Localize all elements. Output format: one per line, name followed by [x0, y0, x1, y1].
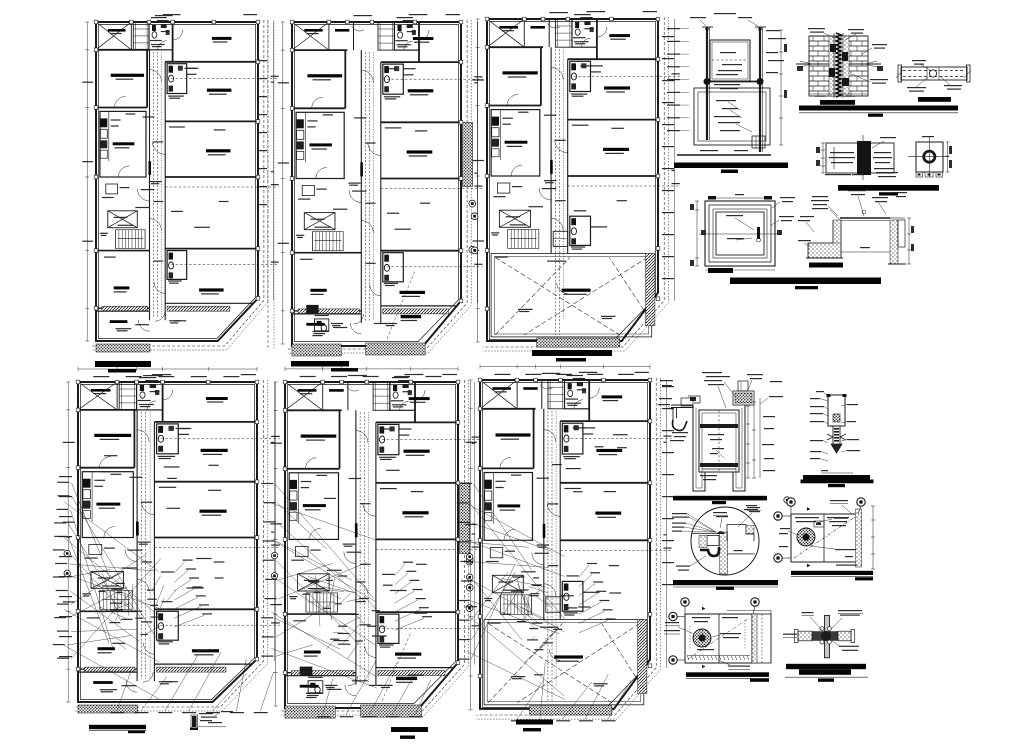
lower corner detail inner dashes	[689, 626, 691, 650]
plan F lift	[492, 575, 523, 593]
brick mortar speckle band	[829, 36, 849, 96]
plan A lift	[108, 211, 138, 228]
plan F top-right bedroom door	[589, 388, 599, 398]
wall pipe inner text rows left	[830, 152, 854, 153]
pipe cross horizontal hatched left	[798, 631, 812, 641]
oh tank support frame inner	[696, 408, 742, 488]
plan B bottom texts	[313, 331, 329, 332]
plan E mid wc	[378, 424, 399, 454]
plan B top-left balcony	[292, 22, 329, 50]
plan A plumbing dash lines upper	[171, 78, 279, 80]
pipe cross subtitle	[818, 678, 834, 681]
right of plan C label ticks	[662, 36, 674, 37]
plan D dashed property line	[74, 380, 264, 707]
plan D plumbing dash lower	[161, 624, 280, 626]
plan B corridor door arcs	[361, 70, 373, 82]
plan D interior extra texts	[166, 508, 180, 509]
pipe cross left label	[783, 634, 797, 635]
plan C right mid bedroom label	[604, 86, 630, 89]
oh tank dark band lower	[700, 463, 738, 467]
plan A corridor duct lines	[152, 52, 154, 318]
foundation right step	[898, 220, 905, 247]
oh tank left texts	[659, 398, 672, 399]
pipe cross horizontal bar dark mid	[812, 631, 838, 641]
plan D interior annotation texts	[130, 477, 143, 478]
pipe cross title bar lower	[799, 669, 851, 675]
plan C dimension line left	[477, 19, 479, 342]
plate cross axis vertical	[928, 136, 930, 177]
plan B interior annotation texts	[354, 117, 366, 118]
lower corner detail centre text	[697, 649, 714, 650]
plan B right edge hatch strip	[463, 122, 473, 186]
plan E stairs	[305, 593, 307, 612]
plan E plumbing dash mid	[376, 549, 480, 551]
plan E right margin dim line	[474, 382, 476, 665]
lower corner detail subtitle	[750, 678, 769, 681]
lower corner detail bottom label	[728, 666, 750, 667]
plan D plumbing dash mid	[154, 547, 279, 549]
upper corner detail bottom-right labels	[835, 549, 856, 550]
pipe joint dash rows	[903, 70, 965, 72]
oh tank trap labels	[672, 432, 688, 433]
plan C title bar	[532, 350, 612, 356]
funnel subtitle	[828, 484, 845, 487]
plan D drop pipe base	[190, 728, 198, 731]
oh tank subtitle	[712, 501, 726, 504]
plan B plumbing dash lines upper	[387, 78, 483, 80]
plan E left bedroom	[285, 409, 342, 411]
plan C top wc	[572, 19, 597, 47]
oh tank far right text	[769, 396, 783, 397]
plan D mid wc annotations	[158, 456, 175, 457]
plan D kitchen door arc	[104, 527, 115, 538]
plan D mid wc 2	[157, 611, 179, 640]
plan A right mid bedroom wall	[165, 120, 258, 122]
plan E top annotation texts	[348, 375, 367, 376]
plan B lift text	[310, 219, 324, 220]
plan D bottom-right bedroom wall	[154, 537, 257, 539]
plan E interior annotation texts	[349, 478, 362, 479]
plan E mid wc 2	[378, 614, 399, 643]
plan F wall tick columns	[478, 378, 482, 382]
plan C top-right bedroom door	[597, 27, 607, 37]
trap floor line left	[692, 532, 719, 534]
underground tank wall rings	[709, 205, 771, 262]
plan B title bar	[291, 361, 349, 367]
riser room inner labels	[716, 100, 736, 101]
plan F interior annotation texts	[537, 478, 549, 479]
plan E plumbing dash lines upper	[382, 439, 480, 441]
plan B big chamfer room label	[401, 315, 422, 318]
plan B right mid bedroom wall	[381, 121, 461, 123]
lower corner detail right-of-blob labels	[720, 633, 741, 634]
riser texts above	[690, 17, 706, 18]
plan E right mid bedroom label	[404, 450, 430, 453]
plan B top wc annotation cluster	[397, 17, 413, 18]
plan E bottom room label	[300, 685, 319, 688]
funnel neck wings	[827, 434, 833, 437]
plan F top shaft	[548, 380, 565, 409]
plan C corridor centre text	[555, 140, 565, 141]
plan A plumbing dash mid	[165, 186, 278, 188]
plan C top wc annotation cluster	[574, 14, 591, 15]
plan E right edge hatch strip	[460, 483, 470, 554]
plan D title rule	[89, 729, 146, 731]
pipe cross end caps	[794, 630, 798, 643]
foundation footing outline	[808, 220, 841, 258]
plan E lower wc fixtures	[308, 681, 323, 693]
plan D room3 label	[192, 649, 219, 652]
oh tank left small box	[681, 398, 693, 406]
plan C plumbing dash lines upper	[574, 75, 680, 77]
plan B dimension line left	[282, 22, 284, 344]
foundation far right labels	[893, 192, 907, 193]
plan A top annotation texts	[155, 15, 173, 16]
funnel inner dark square	[833, 414, 840, 422]
underground tank centre pipe mark	[757, 227, 760, 239]
plan D stair arrow	[102, 598, 130, 600]
plan D kitchen counter	[91, 472, 93, 522]
plan C plumbing dash mid	[568, 185, 680, 187]
plan D corridor centre text	[141, 502, 152, 503]
upper corner detail frame	[791, 514, 858, 562]
upper corner detail diagonal	[794, 517, 855, 558]
oh tank right dim lines	[747, 406, 749, 478]
plan F mid wc annotations	[563, 456, 580, 457]
plan F left bedroom	[480, 408, 536, 410]
plan B bottom door arcs	[350, 323, 361, 334]
foundation slab thin extension	[890, 217, 905, 219]
plan F left bedroom door arc	[500, 457, 511, 468]
oh tank top pipe box	[733, 391, 754, 405]
plan F top band divider	[541, 380, 543, 409]
plan E lower-left room	[285, 613, 356, 615]
plan B lift	[304, 213, 335, 230]
plan C wall tick columns	[485, 17, 489, 21]
plan B bottom-right bedroom label	[407, 150, 433, 153]
plan F kitchen	[484, 473, 532, 541]
oh tank dark band upper	[700, 424, 738, 428]
oh tank support frame	[693, 405, 745, 491]
plan C right margin dim line	[674, 19, 676, 301]
plan D kitchen	[82, 472, 133, 538]
plan D bottom texts	[100, 689, 117, 690]
plan C top-right bedroom	[596, 19, 598, 59]
plan C terrace texts	[518, 309, 533, 310]
plan D bottom leader fan	[117, 671, 131, 712]
plan F kitchen fixtures	[485, 480, 492, 489]
plan E room3 label	[395, 653, 421, 656]
plan A left bedroom door arc	[115, 97, 126, 108]
trap detail circle	[691, 507, 759, 575]
plate feet boxes	[916, 172, 923, 177]
plan C section markers	[471, 213, 478, 220]
square plate rect	[916, 142, 943, 172]
plan D plumbing dash lines upper	[161, 438, 280, 440]
plan C left bedroom	[487, 46, 543, 48]
plan B top-right bedroom door	[419, 30, 429, 40]
plan C lift	[499, 210, 530, 227]
plan A bottom edge dark hatch	[96, 344, 150, 352]
foundation long title bar	[730, 278, 881, 285]
wall pipe centre axis line	[862, 135, 864, 180]
lower corner detail diagonal	[688, 618, 749, 659]
plan D drop pipe leader	[198, 726, 226, 728]
oh tank trap curve	[673, 420, 688, 431]
foundation top label cluster mid	[848, 190, 866, 191]
plan F terrace label	[554, 655, 583, 658]
plan E outer wall	[285, 382, 458, 708]
plan A corridor walls	[149, 50, 151, 320]
plan C terrace	[491, 253, 652, 337]
plan C top annotation texts	[549, 12, 568, 13]
plan E corridor walls	[355, 410, 357, 685]
wall pipe below-right text block	[874, 168, 894, 169]
plan D subtitle	[128, 731, 145, 733]
foundation long subtitle	[795, 286, 818, 289]
plan A plumbing dash lower	[171, 264, 279, 266]
plan A title bar	[95, 361, 151, 367]
long subtitle under brick row	[868, 114, 883, 117]
plan F top wc	[565, 380, 590, 409]
plan E stair area dense cluster	[314, 592, 321, 593]
plan A mid wc	[167, 64, 187, 94]
plan E dashed property line	[281, 380, 465, 711]
upper corner detail title bar	[791, 571, 873, 575]
plan D bottom-right bedroom label	[200, 510, 227, 513]
plan B top band divider	[353, 22, 355, 50]
riser room rect	[694, 88, 770, 145]
plan F terrace shaft box	[546, 597, 560, 612]
plan A right margin dim line	[273, 22, 275, 300]
plan D mid wc	[157, 424, 179, 454]
plan D top shaft	[119, 382, 136, 410]
plan B bottom room label	[306, 323, 324, 326]
plan F top-right bedroom	[588, 380, 590, 421]
trap step block right	[727, 525, 754, 542]
riser left drop	[693, 120, 695, 145]
funnel top rect	[828, 395, 845, 426]
plan D lower-left room	[78, 610, 137, 612]
plan C top band divider	[548, 19, 550, 47]
plan D top wc annotation cluster	[139, 377, 156, 378]
plan F extra wc leader cluster	[579, 565, 589, 577]
plate top tick text	[922, 136, 934, 137]
plan B left margin texts	[278, 82, 289, 83]
plan C left bedroom door arc	[507, 95, 518, 106]
plan F corridor door arcs	[544, 430, 556, 442]
trap leader stack top-left	[672, 513, 687, 514]
upper corner detail top label	[830, 500, 848, 501]
oh tank bottom label	[700, 475, 717, 476]
plan E left margin texts	[270, 443, 282, 444]
plan D corridor black bar	[136, 522, 139, 536]
plan C hall door arc	[539, 188, 551, 200]
riser joint bar	[707, 81, 760, 83]
plan C mid wc	[570, 61, 591, 91]
lower corner detail left labels	[665, 622, 679, 623]
plan E bottom texts	[306, 693, 323, 694]
lower corner detail title bar	[686, 672, 769, 677]
pipe cross centre blob	[822, 632, 831, 641]
lower corner detail bottom hatch row	[687, 656, 689, 661]
plan E bottom door arcs	[345, 685, 356, 696]
plan C terrace right parapet hatch	[646, 253, 655, 325]
plan A top-right bedroom	[172, 22, 174, 62]
funnel AA text	[821, 470, 828, 471]
plan A kitchen	[100, 111, 146, 177]
plan C corridor walls	[550, 47, 552, 253]
plan E balcony hatch strips	[291, 671, 354, 676]
plan E kitchen	[289, 473, 338, 540]
plan B subtitle	[331, 368, 358, 372]
plan B bottom-right bedroom wall	[381, 178, 461, 180]
lower corner detail top extension line	[727, 610, 771, 612]
plan E kitchen door arc	[310, 528, 321, 539]
plan E corridor door arcs	[356, 431, 368, 443]
trap step hatch right	[746, 526, 754, 534]
between-plan dashed column AB	[267, 20, 269, 350]
foundation top label cluster left	[812, 196, 828, 197]
plan E hall boxes	[296, 547, 309, 557]
plan B bottom dark hatch left	[292, 344, 341, 356]
plan E top-left balcony	[285, 382, 323, 410]
foundation right pier	[890, 220, 898, 264]
plan D corridor door arcs	[137, 430, 149, 442]
plan D top-right bedroom door	[163, 390, 173, 400]
upper corner detail right speckle strip	[856, 509, 862, 567]
plan B mid wc annotations	[384, 96, 400, 97]
plan E top wc annotation cluster	[392, 377, 409, 378]
left of plan D label ticks	[59, 476, 72, 477]
lower corner detail divider	[718, 614, 720, 663]
plan E bottom-right bedroom label	[402, 511, 428, 514]
wall pipe bottom-left text row	[825, 174, 851, 175]
funnel leaders right	[847, 404, 858, 405]
plan F corridor black bar	[543, 524, 546, 538]
plan E mid wc annotations	[379, 457, 396, 458]
plan C mid wc 2	[570, 216, 591, 245]
lower corner detail section triangles	[702, 607, 705, 610]
plan C kitchen door arc	[511, 165, 522, 176]
plan A dashed property line	[92, 20, 264, 346]
lower corner detail inner top texts	[692, 617, 710, 618]
plan F leader fan annotations	[473, 484, 531, 570]
plan E left bedroom door arc	[306, 458, 317, 469]
plan B chamfer room diag dash	[387, 271, 415, 339]
oh tank right dim texts	[763, 416, 775, 417]
trap top-right label	[747, 507, 760, 508]
plan C corridor door arcs	[551, 67, 563, 79]
plan E bottom-right bedroom wall	[376, 538, 458, 540]
plan F terrace diagonals	[488, 624, 612, 703]
plan D bottom room label	[93, 681, 113, 684]
lower corner detail rule	[686, 678, 769, 680]
plan A top-left balcony	[96, 22, 131, 50]
plan D lift text	[98, 577, 113, 578]
brick bottom dim line	[809, 93, 868, 95]
plan C outer wall	[487, 19, 658, 341]
pipe joint body	[901, 67, 967, 80]
plan B right margin dim line	[476, 22, 478, 303]
upper corner detail small boxes	[814, 521, 824, 527]
plan C top-left balcony	[487, 19, 524, 47]
plan B lower wc fixtures	[315, 319, 329, 331]
oh tank circle marker	[784, 497, 790, 503]
brick lower-right label block	[870, 79, 888, 80]
plan D balcony hatch strips	[85, 667, 135, 672]
plan B lower-right room wall	[381, 250, 461, 252]
pipe cross vertical pipe	[825, 615, 830, 657]
plan A right mid bedroom label	[207, 89, 232, 92]
upper corner detail subtitle	[855, 577, 873, 580]
riser base line	[677, 154, 771, 156]
plan B top shaft	[378, 22, 394, 50]
plan A lower-left room	[96, 250, 150, 252]
plan A top-right bedroom door	[173, 30, 183, 40]
plan A bottom texts	[116, 328, 132, 329]
plan B outer wall	[292, 22, 461, 346]
plan E big chamfer room label	[396, 677, 417, 680]
trap vertical speckle column	[720, 532, 728, 574]
trap left speckle band	[699, 536, 707, 548]
plan F bottom leader fan	[517, 680, 543, 719]
plan B plumbing dash mid	[381, 188, 483, 190]
plan F stair arrow	[503, 603, 530, 605]
plan F corridor walls	[543, 409, 545, 620]
riser pipe left	[706, 27, 708, 140]
plan C lift text	[506, 216, 521, 217]
plan D central dense cluster	[151, 605, 158, 606]
funnel title bar upper	[803, 475, 870, 480]
plan F dimension line left	[470, 380, 472, 710]
plan F stair area dense cluster	[501, 614, 511, 615]
right of plan F label ticks	[662, 386, 674, 387]
upper corner detail blob	[797, 528, 815, 546]
wall pipe left dim ticks	[822, 143, 824, 173]
plan A corridor door arcs	[150, 70, 162, 82]
plan A left bedroom	[96, 49, 149, 51]
pipe cross top-right labels	[838, 610, 862, 611]
underground tank Y axis line	[699, 233, 781, 235]
upper corner detail section triangles	[807, 508, 810, 511]
plan E kitchen counter	[298, 473, 300, 524]
plan E dimension line left	[275, 382, 277, 706]
oh tank body	[699, 410, 739, 472]
plan A subtitle	[108, 369, 136, 373]
plan F bottom-right bedroom label	[595, 512, 621, 515]
wall pipe centre block	[857, 141, 871, 175]
plan B kitchen	[296, 112, 344, 178]
plan D stair area dense cluster	[116, 583, 125, 584]
plan D hall boxes	[89, 545, 102, 555]
plan B plumbing dash lower	[387, 266, 483, 268]
oh tank title bar	[673, 496, 767, 501]
plan A interior annotation texts	[143, 116, 155, 117]
plan B stairs	[312, 232, 314, 251]
brick right label block	[872, 44, 887, 45]
plan B dashed property line	[288, 20, 467, 349]
plan A kitchen fixtures	[100, 118, 107, 127]
riser pipe right	[759, 27, 761, 152]
brick wall left half	[809, 35, 868, 37]
wall pipe inner text rows right	[874, 152, 891, 153]
plan E section markers	[466, 558, 473, 565]
brick pipe dark patches	[830, 44, 836, 52]
plan A room3 label	[199, 288, 224, 291]
plan E central dense cluster	[359, 598, 369, 599]
plan E bottom rooms wall	[285, 675, 356, 677]
